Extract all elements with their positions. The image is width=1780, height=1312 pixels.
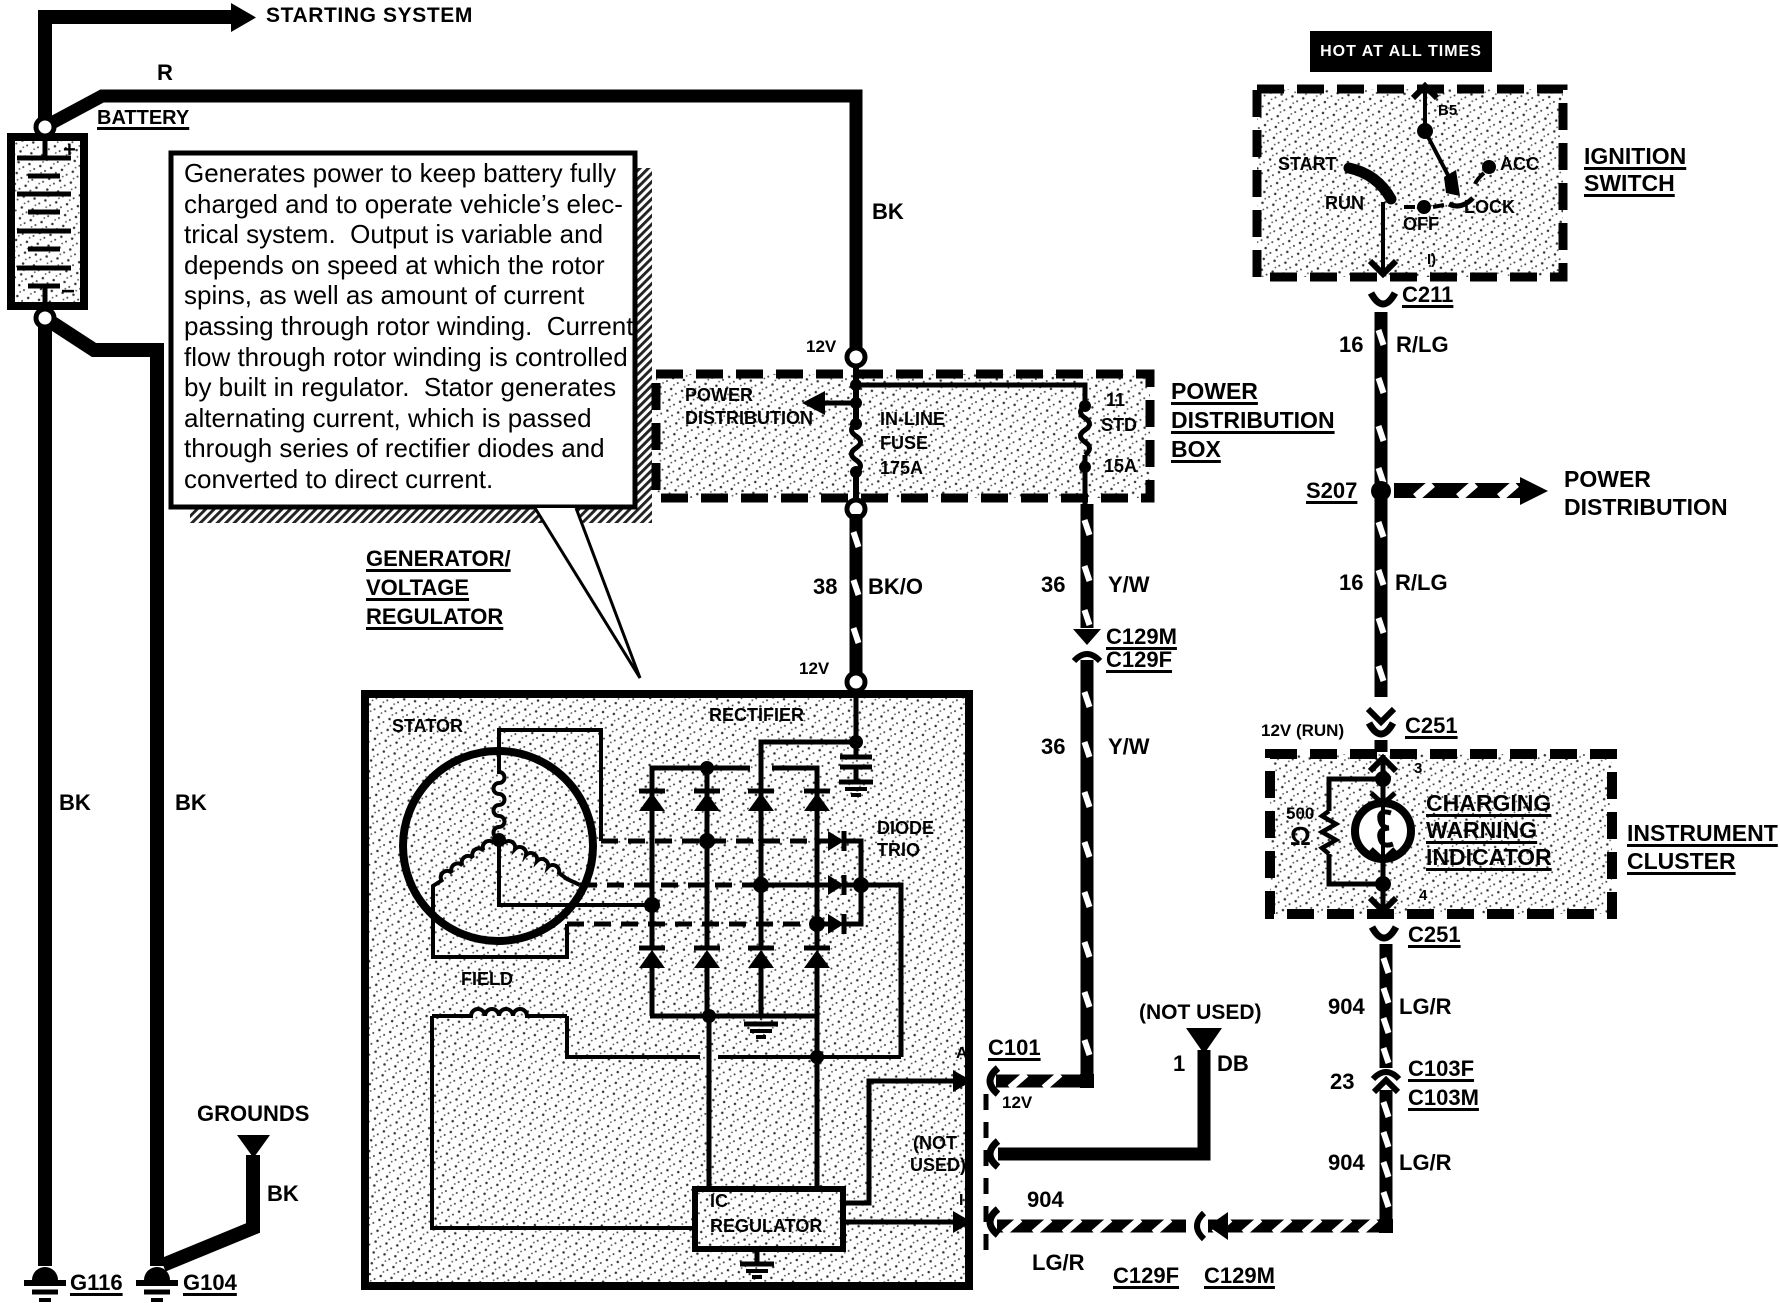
wire 36 Y/W from PDB [1081,504,1094,628]
ignition switch OFF contact [1404,200,1444,214]
connector C101 pin I clip [990,1209,998,1235]
label C103F C103M [1408,1057,1474,1081]
label S207 [1306,479,1357,503]
wire battery negative to G104 (BK) [48,320,157,1266]
battery [11,137,84,306]
label 4 [1419,888,1427,904]
ignition switch wiper [1425,131,1460,196]
note box [171,153,635,507]
instrument cluster box [1270,754,1612,914]
connector C103F C103M [1373,1072,1399,1092]
connector C211 [1371,293,1395,304]
label B5 [1438,103,1457,119]
label 12V at C101 [1002,1094,1032,1112]
label 16 R/LG lower [1339,571,1363,595]
node battery positive terminal [36,118,54,136]
wire 904 LG/R to corner [1380,1090,1393,1220]
wire 36 Y/W to C101 [1081,660,1094,1075]
label 36 Y/W lower [1041,735,1065,759]
label STATOR [392,717,463,736]
connector C101 gang dashed line [984,1094,989,1260]
label ACC [1500,155,1539,174]
wire 904 LG/R into C101 pin I [997,1219,1186,1233]
note box shadow [190,168,652,523]
label C211 [1402,283,1453,307]
label START [1278,155,1337,174]
svg-text:−: − [61,278,75,305]
label IN-LINE FUSE 175A [880,410,945,429]
node 12V at PDB top [847,348,865,366]
diode rectifier bottom 4 [804,948,830,968]
note box callout tail [535,508,640,678]
splice S207 [1371,481,1391,501]
label HOT AT ALL TIMES [1310,31,1492,72]
wire Y/W into C101 pin A [996,1074,1082,1088]
label (NOT USED) DB [1139,1002,1262,1025]
diode rectifier top 2 [694,791,720,811]
label POWER DISTRIBUTION (S207) [1564,467,1651,492]
label BATTERY [97,108,189,130]
wire 904 LG/R to C129F [1208,1219,1380,1233]
rectifier column wires [652,811,817,947]
label 904 LG/R upper [1328,995,1365,1019]
diode rectifier bottom 1 [639,948,665,968]
ignition switch START lever [1349,168,1391,199]
label BK right wire [175,791,207,815]
wire R (battery to power distribution box, BK) [48,96,856,352]
power distribution box [656,374,1150,498]
connector C101 middle clip (not used) [990,1141,998,1167]
label GENERATOR/VOLTAGE REGULATOR [366,547,511,571]
diode rectifier top 1 [639,791,665,811]
generator voltage regulator box [365,694,969,1286]
arrow to POWER DISTRIBUTION (left) [802,379,862,415]
ground G104 [136,1267,178,1300]
wire 16 R/LG to C251 [1375,499,1388,697]
node battery negative terminal [36,309,54,327]
wire field to trio junction [567,1016,901,1064]
label STARTING SYSTEM [266,5,473,28]
label FIELD [461,970,513,989]
label 12V at generator [799,660,829,678]
wire IC regulator to pin I [843,1211,972,1233]
rectifier top rail [652,761,817,841]
wire 16 R/LG from C211 [1375,312,1388,483]
label POWER DISTRIBUTION (in box) [685,386,753,405]
wire to fuse 11 STD [856,385,1085,504]
wire 12V into power distribution box [853,366,859,504]
wire col4 down to IC regulator [815,1016,820,1189]
label IGNITION SWITCH [1584,144,1686,169]
label 904 (horizontal wire) [1027,1188,1064,1212]
label OFF [1403,215,1439,234]
label R [157,61,173,85]
wire field return to IC regulator [432,1016,695,1228]
diode trio D2 [828,875,844,895]
label 12V (RUN) [1261,722,1344,740]
node 12V at generator [847,673,865,691]
wire stator phase B (dashed row to diode trio) [580,877,828,893]
label LOCK [1464,198,1515,217]
label G104 [183,1271,237,1295]
connector C129M C129F (Y/W wire) [1073,629,1101,661]
label pin I [959,1192,963,1209]
note paragraph text [184,158,633,495]
wire 1 DB (not used) [998,1028,1222,1154]
label 1 DB [1173,1052,1185,1076]
label 12V at PDB [806,338,836,356]
wire cluster pin 3 entry [1370,755,1396,802]
connector C251 bottom [1372,927,1396,938]
label CHARGING WARNING INDICATOR [1426,791,1551,816]
connector C129F C129M (904 wire) [1197,1212,1228,1240]
svg-text:+: + [63,137,76,162]
wire 904 LG/R from cluster [1380,944,1393,1068]
wire GROUNDS BK to G104 [163,1135,270,1265]
label I) pin [1427,252,1436,268]
wire diode trio outputs join [844,841,901,1057]
wire stator phase C (dashed row to diode trio) [567,916,828,932]
wire 16 R/LG C251 stub [1375,740,1388,752]
label RECTIFIER [709,706,804,725]
wire battery negative to G116 (BK) [38,318,52,1266]
label 11 STD 15A [1106,391,1125,410]
capacitor at B+ [839,742,873,795]
stator coil lower-right phase [504,841,580,885]
label RUN [1325,194,1364,213]
arrow S207 to POWER DISTRIBUTION [1394,477,1548,505]
charging warning indicator lamp [1355,793,1411,860]
ground rectifier [744,1024,778,1037]
wire corner Y/W to C101 pin A [1080,1074,1094,1088]
IC regulator U1 [695,1189,843,1249]
resistor 500 ohm [1322,779,1383,884]
label C129M C129F [1106,625,1177,649]
label DIODE TRIO [877,819,934,838]
label GROUNDS [197,1102,309,1126]
diode trio D1 [828,831,844,851]
diode rectifier bottom 3 [748,948,774,968]
wire corner 904 [1379,1219,1393,1233]
connector C101 pin A clip [990,1068,998,1094]
label C129F C129M bottom [1113,1264,1179,1288]
wire stator neutral to rectifier [499,840,660,913]
ignition switch box [1257,89,1563,277]
label LG/R (horizontal wire) [1032,1251,1085,1275]
node stator Y center [492,833,506,847]
label C251 bottom [1408,923,1461,947]
diode trio D3 [828,914,844,934]
wire IC regulator to pin A [843,1070,972,1203]
stator winding circle [403,751,593,941]
stator coil lower-left phase [433,841,567,957]
wire cluster pin 4 exit [1370,860,1396,911]
label 3 [1414,761,1422,777]
node at PDB bottom [847,500,865,518]
diode rectifier top 4 [804,791,830,811]
ground IC regulator [740,1249,774,1277]
label C251 top [1405,714,1458,738]
label 500 ohm [1286,805,1314,823]
label pin A [956,1045,968,1062]
label POWER DISTRIBUTION BOX [1171,379,1258,404]
label 23 [1330,1070,1354,1094]
ignition switch ACC contact [1475,160,1496,184]
ignition switch LOCK contact [1449,198,1473,206]
label (NOT USED) generator pin [913,1134,957,1153]
wire rectifier col2 to IC regulator [707,1016,712,1189]
label G116 [70,1271,123,1295]
label BK (vertical wire from R) [872,200,904,224]
fuse 11 STD 15A [1079,400,1091,473]
label BK left wire [59,791,91,815]
label INSTRUMENT CLUSTER [1627,821,1778,846]
label 16 R/LG upper [1339,333,1363,357]
label 38 BK/O [813,575,837,599]
fuse IN-LINE FUSE 175A [850,418,862,478]
label C101 [988,1036,1041,1060]
wire stator phase A (dashed row to diode trio) [601,833,828,849]
stator coil top phase [494,730,602,841]
ignition switch B5 terminal [1413,86,1437,139]
wire rectifier B+ (12V junction to column 3) [761,691,863,885]
label IC REGULATOR [710,1192,728,1211]
label 904 LG/R lower [1328,1151,1365,1175]
ground G116 [24,1267,66,1300]
field winding [432,1009,567,1016]
rectifier bottom rail [650,968,819,1023]
wire battery positive to STARTING SYSTEM [45,3,256,127]
label BK ground jumper [267,1182,299,1206]
diode rectifier bottom 2 [694,948,720,968]
label 36 Y/W upper [1041,573,1065,597]
wire ignition RUN output [1370,202,1396,274]
diode rectifier top 3 [748,791,774,811]
connector C251 top [1368,709,1394,734]
wire 38 BK/O to generator [850,514,863,674]
